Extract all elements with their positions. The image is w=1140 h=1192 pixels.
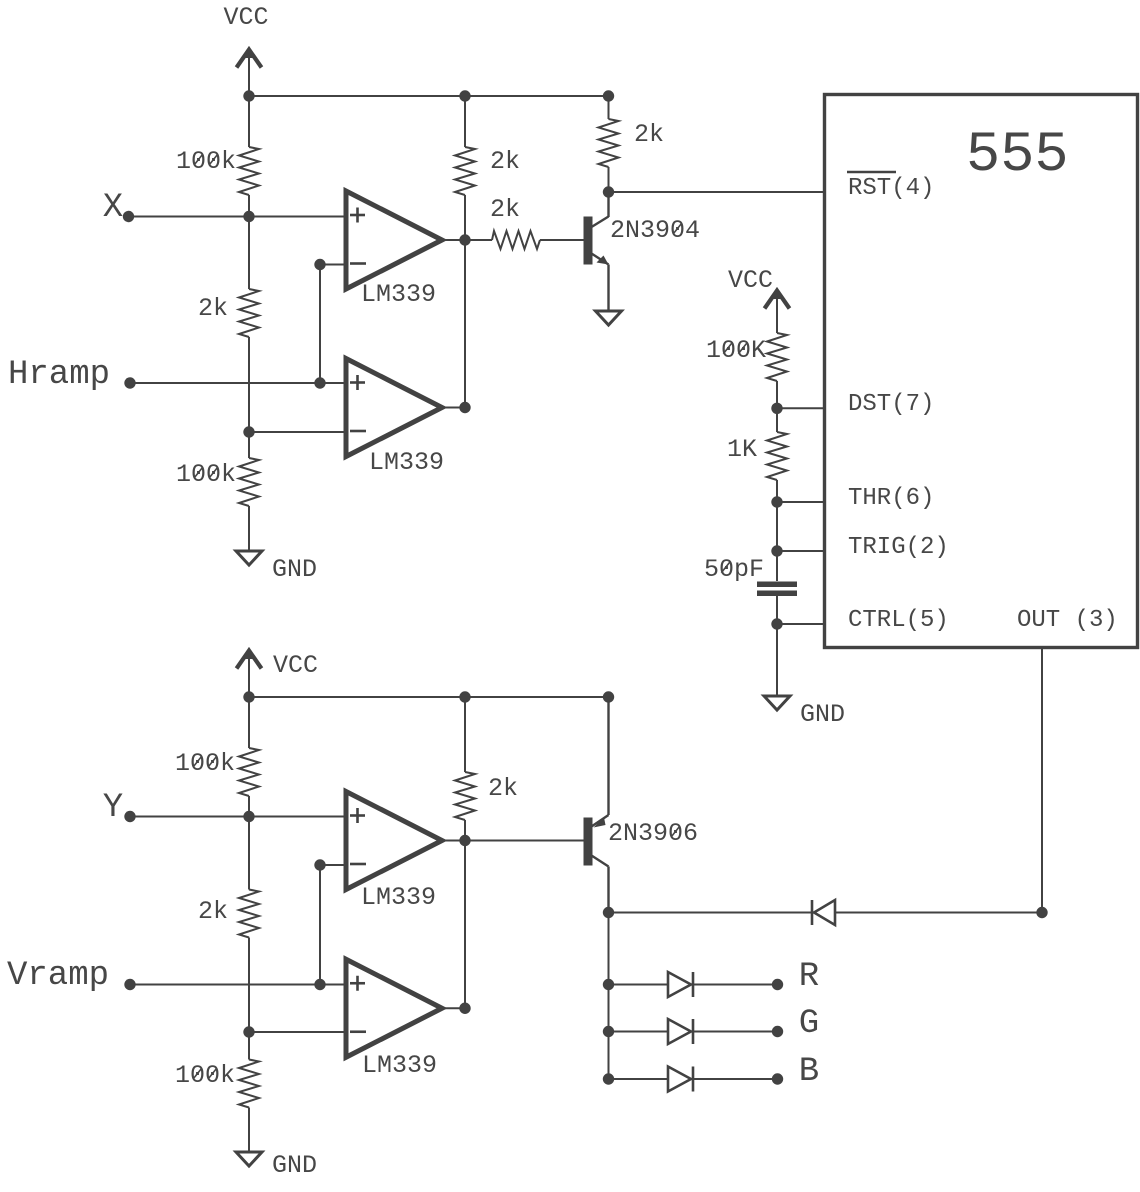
svg-text:Y: Y [103, 789, 123, 827]
junction bottom VCC rail / Q2 emitter [603, 691, 614, 702]
ground (bottom divider) [236, 1152, 262, 1166]
svg-text:2k: 2k [490, 195, 520, 224]
svg-text:B: B [799, 1053, 819, 1091]
wire U2 - input [249, 431, 346, 433]
svg-text:CTRL(5): CTRL(5) [848, 607, 949, 634]
svg-text:2k: 2k [198, 294, 228, 323]
zero slash 100k R1 digit1 [194, 154, 202, 165]
junction collector / D1 row [603, 907, 614, 918]
svg-text:GND: GND [800, 700, 845, 729]
wire bottom VCC rail [249, 696, 609, 698]
wire collector node to 555 RST pin [609, 191, 825, 193]
wire Hramp to comparator U2 + [130, 382, 346, 384]
svg-text:LM339: LM339 [361, 883, 436, 912]
junction TRIG node [771, 545, 782, 556]
terminal Hramp [124, 377, 135, 388]
resistor R3 100k body [239, 458, 259, 506]
wire R2 top lead [248, 217, 250, 290]
zero slash 100k R3 digit1 [194, 467, 202, 478]
ground (timing network) [764, 696, 790, 710]
wire R10 to R11 [248, 938, 250, 1060]
wire U3 inverting input feed [319, 865, 321, 985]
junction collector bus / D4 row [603, 1073, 614, 1084]
wire R6 bottom lead [608, 167, 610, 192]
wire joining comparator outputs [464, 240, 466, 408]
wire D1 row right [835, 912, 1042, 914]
junction DST node [771, 403, 782, 414]
wire R1 bottom lead [248, 195, 250, 217]
ground (top divider) [236, 551, 262, 565]
junction bottom VCC rail / R12 [459, 691, 470, 702]
wire to 555 THR pin [777, 501, 825, 503]
wire R10 top lead [248, 817, 250, 890]
overbar on RST [847, 171, 896, 173]
wire cap to ground [776, 596, 778, 696]
wire top VCC rail [249, 95, 609, 97]
wire joining bottom comparator outputs [464, 841, 466, 1009]
junction U3 output node [459, 835, 470, 846]
resistor R2 2k body [239, 289, 259, 337]
diode D2 (R output) [668, 972, 693, 997]
junction divider / U2 inverting [243, 426, 254, 437]
wire U4 output [442, 1007, 465, 1009]
svg-text:2k: 2k [634, 120, 664, 149]
wire D1 row left [609, 912, 815, 914]
resistor R12 2k body [455, 772, 475, 820]
svg-text:1K: 1K [727, 435, 757, 464]
wire R4 bottom lead [464, 195, 466, 240]
wire to 555 CTRL pin [777, 623, 825, 625]
svg-text:Vramp: Vramp [7, 957, 109, 995]
wire D4 anode [609, 1078, 669, 1080]
wire to Q2 base [465, 840, 584, 842]
wire U3 output [442, 840, 465, 842]
svg-text:VCC: VCC [273, 651, 318, 680]
svg-text:TRIG(2): TRIG(2) [848, 534, 949, 561]
junction U2 output node [459, 402, 470, 413]
zero slash 100k R1 digit2 [209, 154, 217, 165]
wire D4 cathode [693, 1078, 778, 1080]
wire Y to comparator U3 + [130, 816, 346, 818]
svg-text:THR(6): THR(6) [848, 485, 934, 512]
resistor R10 2k body [239, 890, 259, 938]
wire R3 to ground [248, 506, 250, 551]
svg-text:OUT (3): OUT (3) [1017, 607, 1118, 634]
resistor R8 1K body [767, 432, 787, 480]
op-amp U4 LM339 [346, 959, 442, 1057]
diode D3 (G output) [668, 1019, 693, 1044]
diode D4 (B output) [668, 1067, 693, 1092]
diode D1 (from 555 OUT) [812, 900, 835, 925]
terminal G [772, 1026, 783, 1037]
junction X / divider [243, 211, 254, 222]
svg-text:VCC: VCC [728, 266, 773, 295]
resistor R6 2k body [599, 119, 619, 167]
wire X to comparator U1 + [129, 216, 347, 218]
op-amp U1 LM339 [346, 191, 442, 289]
wire R4 top lead [464, 96, 466, 147]
wire D3 anode [609, 1031, 669, 1033]
svg-text:X: X [103, 189, 123, 227]
zero slash 100k R9 digit2 [208, 756, 216, 767]
zero slash 100k R11 digit1 [193, 1068, 201, 1079]
svg-text:100K: 100K [706, 336, 766, 365]
wire D2 anode [609, 984, 669, 986]
wire R8 to THR/TRIG/cap [776, 480, 778, 581]
junction collector bus / D3 row [603, 1026, 614, 1037]
resistor R11 100k body [239, 1060, 259, 1108]
zero slash 100K digit2 [738, 343, 746, 354]
wire Vramp to comparator U4 + [130, 984, 346, 986]
transistor Q1 2N3904 [584, 192, 609, 311]
wire R12 bottom lead [464, 820, 466, 841]
junction U1 inverting input [314, 259, 325, 270]
svg-text:DST(7): DST(7) [848, 391, 934, 418]
wire R6 top lead [608, 96, 610, 119]
junction CTRL node [771, 618, 782, 629]
power symbol VCC (middle) [765, 287, 790, 333]
svg-text:2k: 2k [488, 774, 518, 803]
junction collector bus / D2 row [603, 979, 614, 990]
resistor R1 100k body [239, 147, 259, 195]
wire 555 OUT down [1041, 648, 1043, 913]
junction D1 / 555 OUT [1036, 907, 1047, 918]
op-amp U2 LM339 [346, 359, 442, 457]
svg-text:100k: 100k [175, 1061, 235, 1090]
transistor Q2 2N3906 [584, 697, 609, 913]
capacitor C1 50pF [757, 582, 797, 597]
wire U1 inverting input feed [319, 265, 321, 384]
wire R7 to R8 [776, 381, 778, 432]
wire Q2 collector bus [608, 913, 610, 1080]
zero slash 100k R3 digit2 [209, 467, 217, 478]
power symbol VCC (bottom) [237, 647, 262, 697]
wire U1 output [442, 239, 465, 241]
svg-text:100k: 100k [175, 749, 235, 778]
wire U2 output [442, 407, 465, 409]
junction VCC rail / R4 [459, 90, 470, 101]
junction bottom VCC rail / R9 [243, 691, 254, 702]
terminal B [772, 1073, 783, 1084]
svg-text:100k: 100k [176, 460, 236, 489]
zero slash 2N3906 [671, 826, 679, 837]
svg-text:2N3904: 2N3904 [610, 216, 700, 245]
svg-text:Hramp: Hramp [8, 356, 110, 394]
svg-text:2k: 2k [198, 897, 228, 926]
zero slash 100K digit1 [723, 343, 731, 354]
terminal Y [124, 811, 135, 822]
wire into U1 - input [320, 264, 346, 266]
junction Vramp / U3 inverting [314, 979, 325, 990]
junction divider / U4 inverting [243, 1026, 254, 1037]
resistor R4 2k body [455, 147, 475, 195]
wire R12 top lead [464, 697, 466, 772]
resistor R5 2k body [492, 231, 540, 249]
wire output to R5 [465, 239, 492, 241]
wire D3 cathode [693, 1031, 778, 1033]
junction U1 output node [459, 234, 470, 245]
svg-text:LM339: LM339 [361, 280, 436, 309]
junction VCC rail / R6 [603, 90, 614, 101]
svg-text:R: R [799, 958, 819, 996]
junction Y / divider [243, 811, 254, 822]
terminal X [123, 211, 134, 222]
zero slash 100k R9 digit1 [193, 756, 201, 767]
wire R9 top lead [248, 697, 250, 748]
wire into U3 - input [320, 864, 346, 866]
power symbol VCC (top left) [237, 46, 262, 96]
svg-text:100k: 100k [176, 147, 236, 176]
svg-text:2N3906: 2N3906 [608, 819, 698, 848]
wire to 555 TRIG pin [777, 550, 825, 552]
svg-text:555: 555 [966, 124, 1069, 188]
junction VCC rail / R1 [243, 90, 254, 101]
svg-text:G: G [799, 1005, 819, 1043]
wire R11 to ground [248, 1108, 250, 1153]
svg-text:VCC: VCC [223, 3, 268, 32]
svg-text:RST(4): RST(4) [848, 175, 934, 202]
IC U5 555 box [825, 95, 1138, 648]
resistor R9 100k body [239, 748, 259, 796]
svg-text:2k: 2k [490, 147, 520, 176]
wire to 555 DST pin [777, 407, 825, 409]
wire U4 - input [249, 1031, 346, 1033]
wire R5 to Q1 base [540, 239, 584, 241]
ground (Q1 emitter) [596, 311, 622, 325]
terminal Vramp [124, 979, 135, 990]
terminal R [772, 979, 783, 990]
svg-text:50pF: 50pF [704, 555, 764, 584]
op-amp U3 LM339 [346, 792, 442, 890]
wire R9 bottom lead [248, 796, 250, 817]
wire R1 top lead [248, 96, 250, 147]
zero slash 50pF [721, 562, 729, 573]
svg-text:GND: GND [272, 1151, 317, 1180]
junction Q1 collector node [603, 186, 614, 197]
junction U4 output node [459, 1003, 470, 1014]
junction THR node [771, 496, 782, 507]
junction Hramp / U1 inverting [314, 377, 325, 388]
junction U3 inverting input [314, 859, 325, 870]
svg-text:LM339: LM339 [369, 448, 444, 477]
resistor R7 100K body [767, 333, 787, 381]
zero slash 2N3904 [673, 223, 681, 234]
wire D2 cathode [693, 984, 778, 986]
wire R2 to R3 [248, 337, 250, 458]
svg-text:LM339: LM339 [362, 1051, 437, 1080]
svg-text:GND: GND [272, 555, 317, 584]
zero slash 100k R11 digit2 [208, 1068, 216, 1079]
